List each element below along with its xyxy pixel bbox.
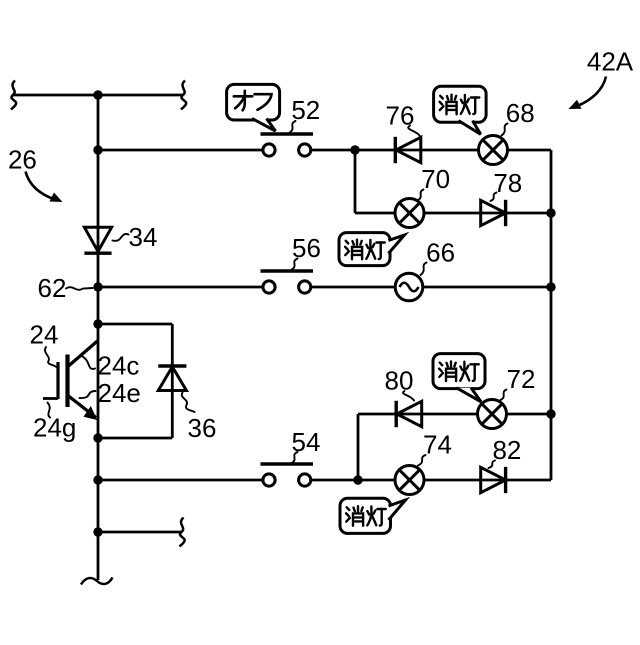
wire row1b through lamp 70 and diode 78 xyxy=(355,212,551,215)
leader 62 xyxy=(66,287,93,290)
node row1 left xyxy=(93,145,102,154)
wire break top-right xyxy=(181,81,186,110)
wire break top-left xyxy=(11,81,16,110)
node rail row2 xyxy=(546,282,555,291)
wire row3 through diode 80 and lamp 72 xyxy=(358,413,551,416)
lamp 70 xyxy=(395,199,424,228)
node rail row3 xyxy=(546,409,555,418)
svg-text:24e: 24e xyxy=(98,378,141,408)
diode 82 xyxy=(481,467,506,493)
leader 68 xyxy=(502,124,508,136)
diode 36 xyxy=(158,366,186,391)
wire row4 switch 54 to right rail xyxy=(311,479,551,482)
node collector xyxy=(93,319,102,328)
leader 24g xyxy=(48,403,51,418)
node emitter xyxy=(93,433,102,442)
wire diode 36 vertical xyxy=(171,324,174,438)
leader 76 xyxy=(408,126,419,136)
wire row2 left to switch 56 xyxy=(98,286,262,289)
svg-text:52: 52 xyxy=(291,95,320,125)
bubble off-lamp 68 (消灯) xyxy=(434,86,487,134)
arrow 26 xyxy=(26,172,63,203)
node row1 branch xyxy=(350,145,359,154)
svg-text:78: 78 xyxy=(493,168,522,198)
leader 78 xyxy=(491,193,497,202)
svg-text:68: 68 xyxy=(506,98,535,128)
wire row1 left to switch 52 xyxy=(98,149,262,152)
node 62 xyxy=(93,282,102,291)
node rail row1b xyxy=(546,208,555,217)
leader 72 xyxy=(501,390,507,401)
wire top horizontal bus xyxy=(12,94,183,97)
lamp 72 xyxy=(478,400,507,429)
svg-text:72: 72 xyxy=(507,364,536,394)
node row4 left xyxy=(93,475,102,484)
wire branch up from node 358,480 xyxy=(357,414,360,480)
leader 24c xyxy=(83,357,96,369)
leader 80 xyxy=(403,391,414,401)
leader 70 xyxy=(418,190,424,201)
diode 78 xyxy=(481,200,506,226)
svg-text:34: 34 xyxy=(129,222,158,252)
svg-text:82: 82 xyxy=(492,435,521,465)
lamp 68 xyxy=(479,136,508,165)
svg-text:42A: 42A xyxy=(587,47,634,77)
leader 82 xyxy=(489,461,496,469)
switch 54 xyxy=(261,464,314,486)
switch 52 xyxy=(261,134,314,156)
diode 34 xyxy=(84,227,111,253)
wire row4 left to switch 54 xyxy=(98,479,262,482)
leader 24 xyxy=(45,347,57,367)
bubble off-lamp 72 (消灯) xyxy=(433,354,485,402)
leader 24e xyxy=(80,391,96,398)
wire right vertical rail xyxy=(550,150,553,480)
switch 56 xyxy=(261,271,314,293)
bubble off-lamp 70 (消灯) xyxy=(339,233,405,266)
leader 36 xyxy=(182,393,195,413)
diode 80 xyxy=(396,401,422,427)
svg-text:56: 56 xyxy=(292,233,321,263)
wire transistor collector top xyxy=(98,323,172,326)
wire left vertical bus xyxy=(97,95,100,580)
svg-text:24g: 24g xyxy=(33,413,76,443)
leader 66 xyxy=(421,263,427,276)
wire row2 switch 56 to right rail xyxy=(311,286,551,289)
bubble off-lamp 74 (消灯) xyxy=(340,498,406,533)
leader 56 xyxy=(291,259,298,271)
wire transistor emitter bottom xyxy=(98,437,172,440)
node row4 branch xyxy=(353,475,362,484)
svg-text:74: 74 xyxy=(423,429,452,459)
svg-text:36: 36 xyxy=(188,413,217,443)
leader 54 xyxy=(291,452,298,464)
bubble off (オフ) xyxy=(227,84,280,131)
node stub xyxy=(93,527,102,536)
svg-text:76: 76 xyxy=(386,100,415,130)
svg-text:26: 26 xyxy=(8,144,37,174)
wire stub bottom xyxy=(98,531,181,534)
wire row1 switch 52 to lamp 68 xyxy=(311,149,551,152)
AC source 66 xyxy=(395,273,423,301)
svg-text:24: 24 xyxy=(30,320,59,350)
svg-text:62: 62 xyxy=(38,273,67,303)
svg-text:24c: 24c xyxy=(98,351,140,381)
diode 76 xyxy=(395,137,421,163)
leader 74 xyxy=(418,455,426,466)
wire break bottom of left bus xyxy=(81,578,113,585)
svg-text:66: 66 xyxy=(426,238,455,268)
wire branch down from node at 355,150 xyxy=(354,150,357,213)
svg-text:70: 70 xyxy=(421,164,450,194)
node top bus xyxy=(93,90,102,99)
svg-text:80: 80 xyxy=(385,366,414,396)
arrow 42A xyxy=(569,77,607,110)
transistor Q 24 (IGBT) xyxy=(43,341,98,421)
svg-text:54: 54 xyxy=(292,427,321,457)
wire break stub end xyxy=(180,518,185,547)
lamp 74 xyxy=(395,466,424,495)
leader 34 xyxy=(113,234,129,241)
leader 52 xyxy=(289,121,296,133)
